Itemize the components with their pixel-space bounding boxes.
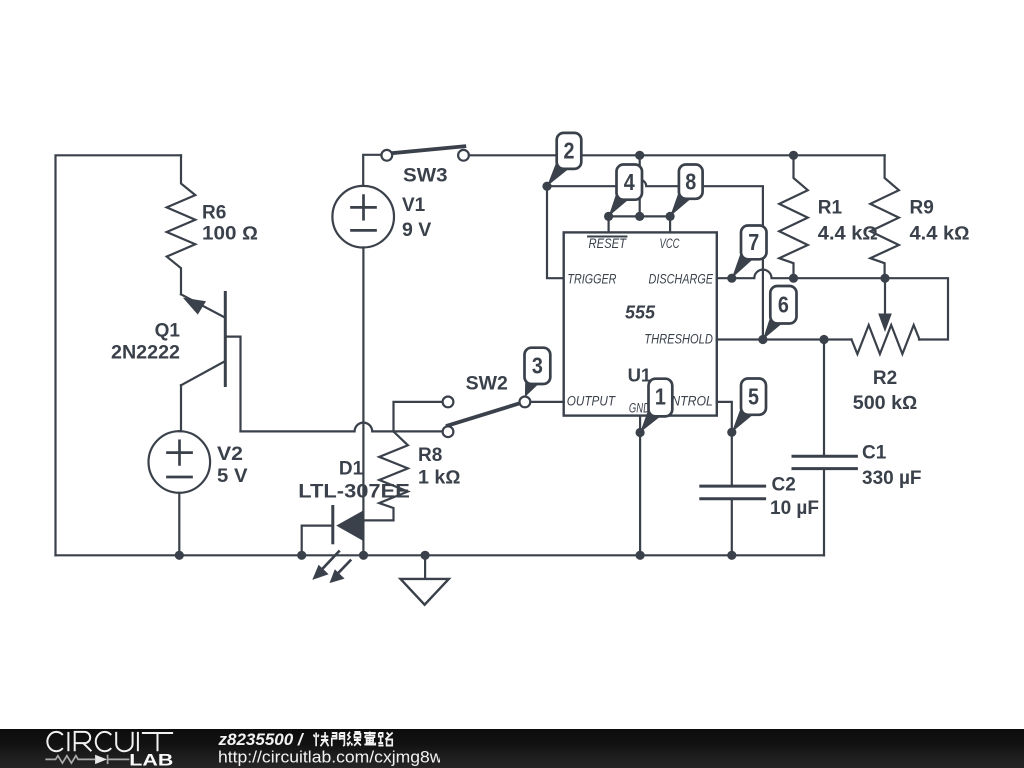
junction D1 anode / ground rail	[359, 551, 368, 560]
glyph 線	[347, 732, 361, 746]
resistor R9	[870, 155, 899, 278]
svg-text:1: 1	[655, 384, 666, 410]
wire top-left loop and left rail	[56, 155, 182, 555]
svg-text:V2: V2	[217, 444, 243, 465]
wire reset/vcc stub rail	[609, 215, 671, 217]
svg-text:R8: R8	[418, 445, 442, 466]
capacitor C1	[793, 340, 922, 556]
logo letter U	[116, 732, 132, 751]
junction node 1 anchor / GND net	[636, 428, 645, 437]
transistor Q1	[111, 293, 241, 432]
svg-text:D1: D1	[339, 459, 364, 480]
potentiometer R2 wiper	[884, 278, 886, 316]
node 7	[732, 226, 767, 279]
svg-text:2: 2	[564, 138, 575, 164]
resistor R1	[779, 155, 808, 278]
logo diode triangle	[95, 755, 107, 764]
svg-text:RESET: RESET	[589, 236, 628, 251]
junction GND pin / ground rail	[636, 551, 645, 560]
wire bottom rail	[56, 554, 825, 556]
node 2 vertical to trigger	[547, 186, 564, 278]
wire top dot to reset/vcc rail	[639, 155, 641, 216]
svg-text:3: 3	[532, 353, 543, 379]
logo letter R	[75, 732, 92, 751]
wire threshold net	[717, 338, 852, 340]
svg-text:LAB: LAB	[129, 751, 173, 768]
wire GND pin down	[639, 416, 641, 556]
ground	[401, 555, 449, 604]
LED D1	[298, 459, 410, 556]
svg-text:7: 7	[748, 229, 759, 255]
svg-text:VCC: VCC	[660, 236, 680, 251]
junction node 6 anchor / threshold net	[758, 335, 767, 344]
logo letter C	[96, 732, 111, 751]
junction ground symbol stem	[421, 551, 430, 560]
potentiometer R2	[852, 325, 920, 354]
junction pin4-8 rail center	[635, 212, 644, 221]
wire VCC pin stub	[669, 216, 671, 232]
voltage source V2	[149, 431, 248, 555]
svg-text:5: 5	[748, 384, 759, 410]
junction node 2 net	[542, 182, 551, 191]
wire discharge net with hop	[717, 270, 948, 340]
svg-text:OUTPUT: OUTPUT	[567, 393, 617, 408]
node 4	[609, 165, 642, 217]
IC U1 pin labels	[567, 236, 714, 415]
junction R1 bottom / discharge net	[789, 274, 798, 283]
node 2	[547, 133, 581, 186]
wire output pin to SW2	[530, 401, 563, 403]
svg-text:9 V: 9 V	[402, 220, 432, 241]
junction threshold / C1 branch	[819, 335, 828, 344]
svg-text:DISCHARGE: DISCHARGE	[649, 272, 714, 287]
svg-text:z8235500 /: z8235500 /	[218, 730, 305, 749]
node 5	[732, 379, 766, 433]
svg-text:6: 6	[778, 292, 789, 318]
node 6	[763, 286, 797, 340]
node 1	[640, 379, 672, 433]
resistor R6	[167, 155, 196, 294]
glyph 門	[332, 733, 345, 746]
svg-text:C2: C2	[772, 475, 796, 496]
svg-text:Q1: Q1	[155, 321, 181, 342]
footer title CJK 快門線電路	[314, 732, 393, 747]
junction node 7 anchor	[727, 274, 736, 283]
wire trigger net with hop over x=639.7	[547, 180, 763, 340]
svg-text:1 kΩ: 1 kΩ	[418, 468, 461, 489]
op-amp/IC U1 555 box	[564, 232, 717, 415]
glyph 路	[378, 733, 392, 746]
glyph 快	[314, 732, 329, 746]
footer bar	[0, 729, 1024, 768]
junction D1 cathode / ground rail	[297, 551, 306, 560]
svg-text:R1: R1	[818, 198, 843, 219]
glyph 電	[364, 732, 376, 745]
logo letter T	[142, 733, 173, 751]
LED D1 light arrows	[312, 552, 350, 584]
switch SW2	[241, 374, 531, 438]
svg-text:2N2222: 2N2222	[111, 343, 180, 364]
svg-text:SW3: SW3	[403, 166, 448, 187]
wire RESET pin stub	[607, 216, 609, 232]
svg-text:http://circuitlab.com/cxjmg8w: http://circuitlab.com/cxjmg8w	[218, 747, 440, 766]
svg-text:R6: R6	[202, 203, 226, 224]
junction R9 bottom / wiper	[880, 274, 889, 283]
logo letter I	[67, 732, 69, 751]
svg-text:LTL-307EE: LTL-307EE	[298, 482, 410, 503]
svg-text:C1: C1	[862, 443, 887, 464]
voltage source V1	[332, 155, 431, 556]
CircuitLab logo	[0, 729, 440, 768]
junction VCC stub	[666, 212, 675, 221]
junction node 5 anchor / control net	[727, 428, 736, 437]
logo letter I	[137, 732, 139, 751]
svg-text:10 µF: 10 µF	[770, 498, 819, 519]
capacitor C2	[701, 475, 819, 556]
switch SW3	[381, 146, 469, 186]
junction C2 bottom / ground rail	[727, 551, 736, 560]
svg-text:330 µF: 330 µF	[862, 468, 922, 489]
svg-text:SW2: SW2	[466, 374, 508, 395]
svg-text:V1: V1	[402, 195, 426, 216]
svg-text:R9: R9	[910, 198, 934, 219]
junction top rail / pin4-8 branch	[635, 151, 644, 160]
wire top rail to R1/R9	[469, 154, 885, 156]
svg-text:TRIGGER: TRIGGER	[567, 272, 616, 287]
node 8	[670, 165, 703, 217]
junction RESET stub	[604, 212, 613, 221]
svg-text:500 kΩ: 500 kΩ	[853, 393, 918, 414]
svg-text:8: 8	[685, 169, 696, 195]
svg-text:4: 4	[624, 169, 635, 195]
svg-text:100 Ω: 100 Ω	[202, 224, 258, 245]
svg-text:5 V: 5 V	[217, 466, 248, 487]
logo resistor-diode squiggle	[45, 755, 129, 764]
resistor R8	[364, 432, 408, 521]
svg-text:4.4 kΩ: 4.4 kΩ	[910, 224, 970, 245]
svg-text:THRESHOLD: THRESHOLD	[644, 332, 713, 347]
wire control pin / C2	[717, 402, 732, 486]
svg-text:U1: U1	[628, 365, 652, 386]
svg-text:R2: R2	[873, 368, 897, 389]
logo letter C	[47, 732, 62, 751]
node 3	[525, 348, 551, 397]
junction top rail / R1 top	[789, 151, 798, 160]
svg-text:555: 555	[625, 303, 656, 323]
svg-text:4.4 kΩ: 4.4 kΩ	[818, 224, 878, 245]
junction V2 bottom / ground rail	[175, 551, 184, 560]
svg-text:GND: GND	[629, 400, 650, 415]
